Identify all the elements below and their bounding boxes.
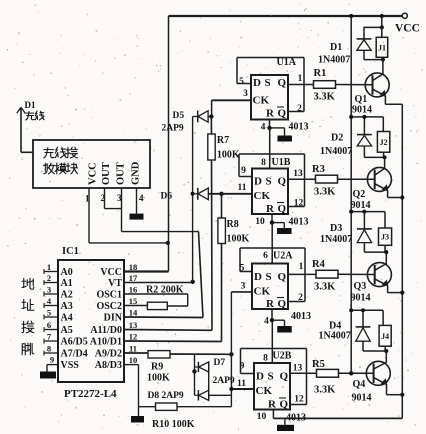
svg-text:R7: R7 bbox=[217, 135, 229, 146]
svg-text:1N4007: 1N4007 bbox=[319, 331, 351, 342]
svg-text:13: 13 bbox=[129, 320, 138, 330]
svg-text:D: D bbox=[254, 175, 262, 187]
svg-text:16: 16 bbox=[129, 285, 138, 295]
svg-text:VCC: VCC bbox=[395, 23, 420, 35]
svg-text:9014: 9014 bbox=[352, 105, 372, 116]
svg-text:D: D bbox=[254, 271, 262, 283]
svg-text:2: 2 bbox=[297, 104, 302, 114]
svg-text:Q: Q bbox=[278, 203, 287, 215]
svg-text:4013: 4013 bbox=[291, 311, 311, 322]
svg-text:Q: Q bbox=[278, 271, 287, 283]
svg-text:Q: Q bbox=[278, 298, 287, 310]
svg-text:9: 9 bbox=[50, 355, 54, 365]
svg-text:CK: CK bbox=[256, 385, 273, 397]
svg-text:GND: GND bbox=[131, 161, 142, 185]
svg-text:A5: A5 bbox=[61, 325, 73, 336]
svg-text:OSC1: OSC1 bbox=[96, 290, 122, 301]
svg-text:R3: R3 bbox=[312, 164, 325, 175]
svg-text:Q2: Q2 bbox=[353, 189, 366, 200]
svg-text:3.3K: 3.3K bbox=[314, 282, 336, 293]
svg-text:17: 17 bbox=[129, 273, 138, 283]
svg-text:OSC2: OSC2 bbox=[96, 301, 122, 312]
svg-text:D8 2AP9: D8 2AP9 bbox=[148, 391, 184, 401]
svg-text:U2B: U2B bbox=[273, 351, 292, 362]
svg-text:1: 1 bbox=[298, 74, 303, 84]
svg-text:VT: VT bbox=[108, 278, 122, 289]
svg-text:Q1: Q1 bbox=[355, 94, 368, 105]
svg-text:100K: 100K bbox=[227, 234, 250, 245]
svg-text:9: 9 bbox=[241, 166, 246, 176]
svg-text:S: S bbox=[268, 370, 274, 382]
svg-text:Q: Q bbox=[278, 175, 287, 187]
svg-text:J2: J2 bbox=[380, 138, 388, 147]
svg-text:3: 3 bbox=[47, 285, 51, 295]
svg-text:A7/D4: A7/D4 bbox=[61, 349, 88, 360]
svg-text:1N4007: 1N4007 bbox=[320, 146, 352, 157]
svg-text:9014: 9014 bbox=[352, 393, 372, 404]
svg-text:R5: R5 bbox=[312, 359, 325, 370]
svg-text:CK: CK bbox=[254, 190, 271, 202]
svg-text:2AP9: 2AP9 bbox=[162, 124, 184, 134]
svg-text:4: 4 bbox=[261, 123, 266, 133]
svg-text:9014: 9014 bbox=[351, 200, 371, 211]
svg-text:D: D bbox=[256, 370, 264, 382]
svg-text:J1: J1 bbox=[378, 43, 386, 52]
svg-text:PT2272-L4: PT2272-L4 bbox=[64, 388, 117, 400]
svg-text:4013: 4013 bbox=[289, 122, 309, 133]
svg-text:J4: J4 bbox=[381, 332, 389, 341]
svg-text:3: 3 bbox=[241, 282, 246, 292]
svg-text:11: 11 bbox=[238, 183, 247, 193]
svg-text:D: D bbox=[253, 77, 261, 89]
svg-text:S: S bbox=[265, 77, 271, 89]
svg-text:R4: R4 bbox=[312, 259, 326, 270]
svg-text:3.3K: 3.3K bbox=[314, 187, 336, 198]
svg-text:10: 10 bbox=[255, 217, 265, 227]
svg-text:5: 5 bbox=[240, 264, 245, 274]
svg-text:A1: A1 bbox=[61, 278, 73, 289]
svg-text:Q4: Q4 bbox=[353, 379, 366, 390]
svg-text:R10 100K: R10 100K bbox=[152, 419, 195, 430]
svg-text:R: R bbox=[268, 398, 277, 410]
svg-text:S: S bbox=[266, 175, 272, 187]
svg-text:DIN: DIN bbox=[104, 313, 123, 324]
svg-text:Q: Q bbox=[278, 107, 287, 119]
svg-text:D7: D7 bbox=[214, 358, 226, 368]
svg-text:6: 6 bbox=[263, 251, 268, 261]
svg-text:D5: D5 bbox=[173, 111, 185, 121]
svg-text:U2A: U2A bbox=[273, 251, 293, 262]
svg-text:R: R bbox=[266, 107, 275, 119]
svg-text:U1A: U1A bbox=[277, 57, 297, 68]
svg-text:CK: CK bbox=[254, 286, 271, 298]
svg-text:6: 6 bbox=[47, 320, 51, 330]
svg-text:R1: R1 bbox=[314, 68, 327, 79]
svg-text:Q3: Q3 bbox=[354, 281, 367, 292]
svg-text:CK: CK bbox=[253, 95, 270, 107]
svg-text:IC1: IC1 bbox=[62, 246, 79, 257]
svg-text:9: 9 bbox=[240, 362, 245, 372]
svg-text:2: 2 bbox=[47, 273, 51, 283]
svg-text:11: 11 bbox=[237, 379, 246, 389]
svg-text:4: 4 bbox=[139, 193, 144, 203]
svg-text:4013: 4013 bbox=[286, 413, 306, 424]
svg-text:1: 1 bbox=[47, 262, 51, 272]
svg-text:1: 1 bbox=[85, 194, 90, 204]
svg-text:1: 1 bbox=[299, 262, 304, 272]
svg-text:4013: 4013 bbox=[289, 217, 309, 228]
svg-text:A11/D0: A11/D0 bbox=[90, 325, 122, 336]
svg-text:D1: D1 bbox=[330, 42, 342, 53]
svg-text:13: 13 bbox=[293, 364, 303, 374]
svg-text:A2: A2 bbox=[61, 290, 73, 301]
svg-text:2: 2 bbox=[101, 193, 106, 203]
svg-text:J3: J3 bbox=[381, 233, 389, 242]
svg-text:Q: Q bbox=[278, 77, 287, 89]
svg-text:R: R bbox=[266, 298, 275, 310]
svg-text:13: 13 bbox=[293, 169, 303, 179]
svg-text:9014: 9014 bbox=[351, 293, 371, 304]
svg-text:A0: A0 bbox=[61, 267, 73, 278]
svg-text:VCC: VCC bbox=[88, 162, 99, 185]
svg-text:VSS: VSS bbox=[61, 360, 80, 371]
svg-text:3: 3 bbox=[243, 89, 248, 99]
svg-text:A6/D5: A6/D5 bbox=[61, 337, 88, 348]
svg-text:11: 11 bbox=[129, 344, 137, 354]
svg-text:Q: Q bbox=[280, 398, 289, 410]
svg-text:OUT: OUT bbox=[101, 162, 112, 185]
svg-text:U1B: U1B bbox=[272, 157, 291, 168]
svg-text:5: 5 bbox=[47, 308, 51, 318]
svg-text:1N4007: 1N4007 bbox=[318, 55, 350, 66]
svg-text:8: 8 bbox=[47, 344, 51, 354]
svg-text:12: 12 bbox=[129, 332, 138, 342]
svg-text:3: 3 bbox=[117, 193, 122, 203]
svg-text:S: S bbox=[266, 271, 272, 283]
svg-text:A9/D2: A9/D2 bbox=[95, 349, 122, 360]
svg-text:D1: D1 bbox=[25, 100, 36, 110]
svg-text:A3: A3 bbox=[61, 301, 73, 312]
svg-text:10: 10 bbox=[129, 355, 138, 365]
svg-text:3.3K: 3.3K bbox=[314, 92, 336, 103]
svg-text:1N4007: 1N4007 bbox=[320, 234, 352, 245]
svg-text:D3: D3 bbox=[330, 223, 342, 234]
svg-text:Q: Q bbox=[280, 370, 289, 382]
svg-text:VCC: VCC bbox=[100, 267, 122, 278]
svg-text:14: 14 bbox=[129, 308, 138, 318]
svg-text:OUT: OUT bbox=[116, 162, 127, 185]
svg-text:R9: R9 bbox=[151, 362, 163, 373]
svg-text:10: 10 bbox=[257, 412, 267, 422]
svg-text:2: 2 bbox=[298, 293, 303, 303]
svg-text:12: 12 bbox=[294, 199, 304, 209]
svg-text:A4: A4 bbox=[61, 313, 73, 324]
svg-text:15: 15 bbox=[129, 296, 138, 306]
svg-text:5: 5 bbox=[239, 77, 244, 87]
svg-text:A10/D1: A10/D1 bbox=[90, 337, 122, 348]
svg-text:R: R bbox=[266, 203, 275, 215]
svg-text:100K: 100K bbox=[147, 373, 170, 384]
svg-text:4: 4 bbox=[264, 317, 269, 327]
svg-text:3.3K: 3.3K bbox=[314, 385, 336, 396]
svg-text:8: 8 bbox=[261, 158, 266, 168]
svg-text:D6: D6 bbox=[161, 192, 173, 202]
svg-text:R2 200K: R2 200K bbox=[146, 285, 184, 296]
svg-text:D2: D2 bbox=[331, 133, 343, 144]
svg-text:100K: 100K bbox=[217, 150, 240, 161]
svg-text:12: 12 bbox=[294, 395, 304, 405]
svg-text:R8: R8 bbox=[227, 219, 239, 230]
svg-text:A8/D3: A8/D3 bbox=[95, 360, 122, 371]
